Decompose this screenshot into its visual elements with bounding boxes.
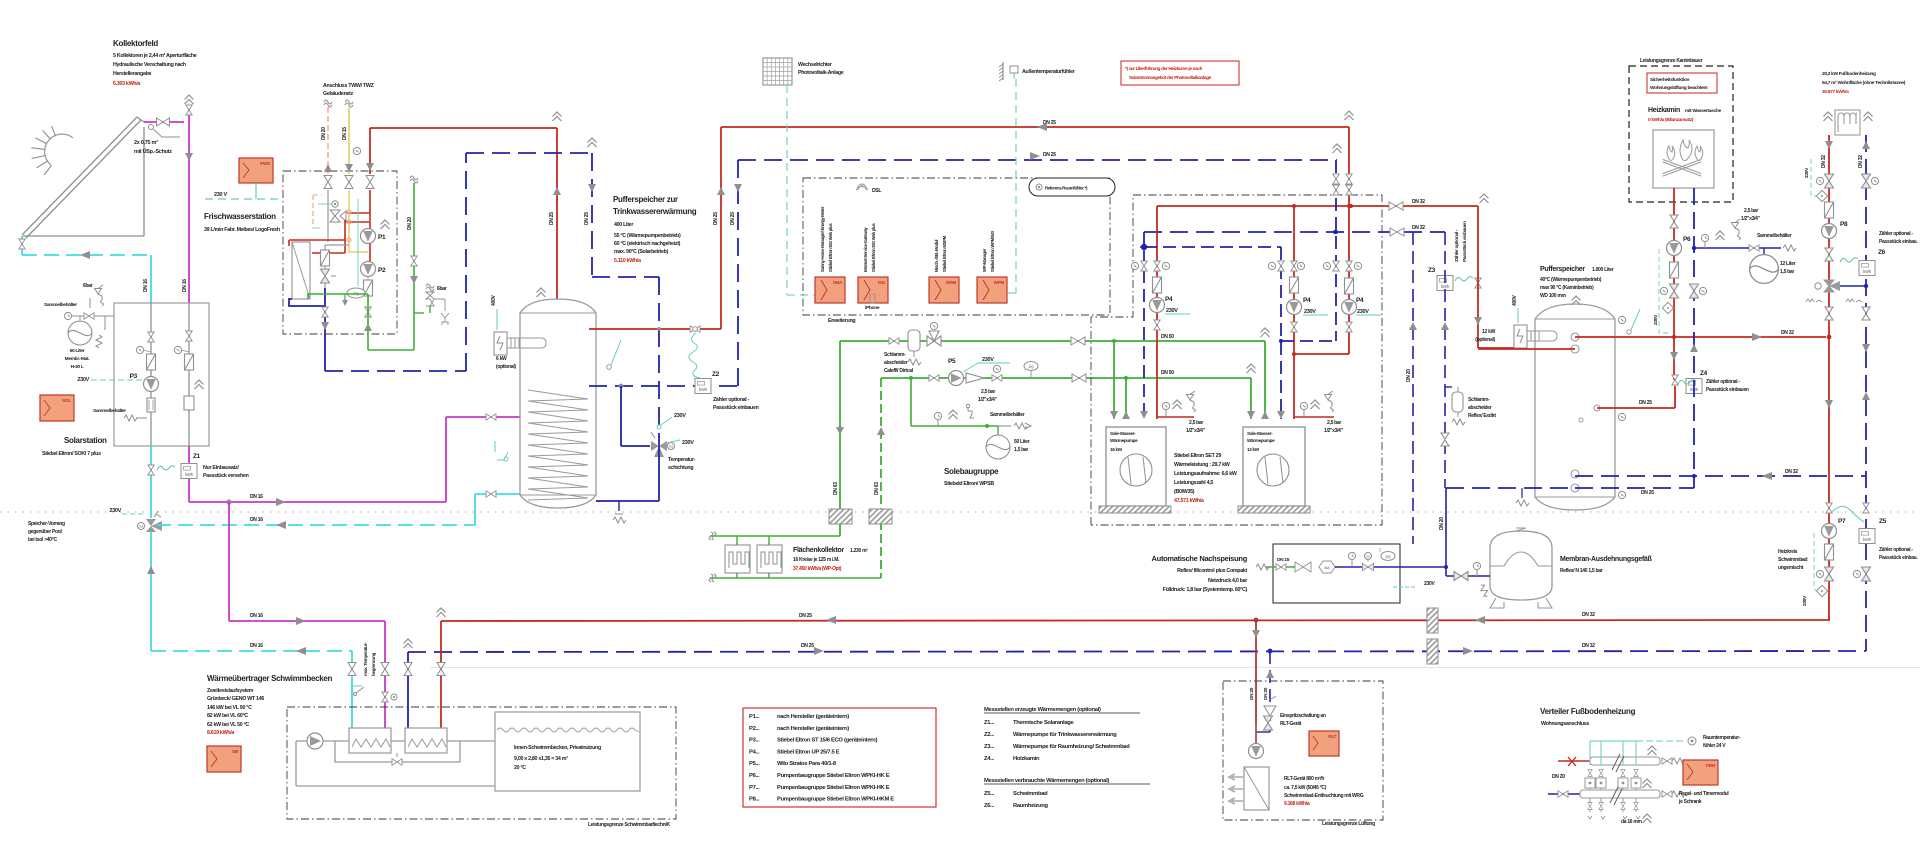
svg-text:Zähler optional -: Zähler optional - bbox=[1879, 231, 1913, 237]
svg-text:Membr.-Mat.: Membr.-Mat. bbox=[65, 356, 90, 362]
svg-text:P4: P4 bbox=[1356, 297, 1364, 304]
svg-text:SMA: SMA bbox=[833, 280, 843, 285]
svg-text:Holzkamin: Holzkamin bbox=[1013, 756, 1040, 762]
filter magenta column bbox=[185, 354, 194, 370]
pool circuit gray pipes bbox=[296, 740, 307, 742]
valve navy mid bbox=[1862, 307, 1870, 320]
wire green riser DN63 supply bbox=[839, 341, 841, 536]
svg-text:DN 25: DN 25 bbox=[1043, 152, 1056, 158]
svg-text:2,5 bar: 2,5 bar bbox=[1744, 208, 1758, 214]
wire red FWS internal bbox=[369, 190, 371, 212]
svg-text:20,3 kW Fußbodenheizung: 20,3 kW Fußbodenheizung bbox=[1822, 71, 1876, 77]
svg-text:Grünbeck/ GENO WT 146: Grünbeck/ GENO WT 146 bbox=[207, 696, 264, 702]
svg-text:60 °C (elektrisch nachgeheizt): 60 °C (elektrisch nachgeheizt) bbox=[614, 241, 681, 247]
junction red DN32 at P6 bbox=[1672, 335, 1676, 339]
svg-text:P2: P2 bbox=[378, 267, 386, 274]
svg-text:400 Liter: 400 Liter bbox=[614, 222, 633, 228]
HP2 navy riser bbox=[1140, 243, 1148, 251]
wire navy header DN32 bbox=[1144, 231, 1445, 233]
valve Z3 on red bbox=[1475, 278, 1481, 288]
heat exchanger FWS bbox=[292, 242, 310, 299]
pipe DN15 (yellow) bbox=[348, 107, 350, 174]
svg-text:Pufferspeicher: Pufferspeicher bbox=[1540, 266, 1585, 273]
wire red header DN32 bbox=[1157, 205, 1478, 207]
svg-text:20 °C: 20 °C bbox=[514, 765, 526, 771]
wire red top to heat pump zone (DN 25) bbox=[721, 126, 1349, 128]
svg-text:max 90 °C (Kaminbetrieb): max 90 °C (Kaminbetrieb) bbox=[1540, 285, 1594, 291]
svg-text:Wärmepumpe: Wärmepumpe bbox=[1110, 438, 1138, 443]
svg-text:Stiebel Eltron ISG Web plus: Stiebel Eltron ISG Web plus bbox=[828, 223, 833, 272]
injection valve RLT bbox=[1264, 706, 1276, 716]
svg-text:Stiebel Eltron MSPM: Stiebel Eltron MSPM bbox=[942, 235, 947, 272]
wire collector upper header bbox=[710, 535, 840, 537]
wire cyan drop to pool HX1 bbox=[351, 651, 353, 728]
wire navy tank return riser bbox=[589, 385, 738, 387]
svg-text:Gebäudenetz: Gebäudenetz bbox=[323, 91, 354, 97]
svg-text:DN 25: DN 25 bbox=[799, 613, 812, 619]
diamond sensor P6 bbox=[1662, 302, 1673, 313]
svg-text:2,5 bar: 2,5 bar bbox=[1327, 420, 1341, 426]
wire red tank to DN32 right bbox=[1575, 336, 1826, 338]
svg-text:DSL: DSL bbox=[872, 188, 881, 194]
chevron vent bbox=[195, 380, 204, 389]
wire navy DN32 tank to right bbox=[1575, 475, 1866, 477]
wire magenta drop to pool HX1 bbox=[384, 621, 386, 728]
svg-text:DN 32: DN 32 bbox=[1412, 199, 1425, 205]
svg-text:2,5 bar: 2,5 bar bbox=[981, 389, 995, 395]
svg-text:je Schrank: je Schrank bbox=[1678, 799, 1702, 805]
wire navy top to heat pump zone (DN 25) bbox=[738, 159, 1337, 161]
svg-text:Netzdruck 4,0 bar: Netzdruck 4,0 bar bbox=[1208, 578, 1247, 584]
wire cyan pool horizontal DN 16 bbox=[151, 650, 352, 652]
pump P1 bbox=[369, 212, 371, 262]
wire navy under FWS to riser bbox=[325, 370, 466, 372]
svg-text:da 16 mm: da 16 mm bbox=[1621, 819, 1643, 825]
svg-text:6.303 kWh/a: 6.303 kWh/a bbox=[113, 81, 140, 87]
svg-text:Sammelbehälter: Sammelbehälter bbox=[44, 302, 77, 308]
wire red FBH riser bbox=[1828, 135, 1830, 620]
pipe yellow internal bbox=[348, 190, 350, 252]
svg-text:DN 32: DN 32 bbox=[1582, 612, 1595, 618]
svg-text:400V: 400V bbox=[491, 295, 497, 306]
svg-text:Passstück einbauen: Passstück einbauen bbox=[713, 405, 759, 411]
warn box Sicherheitsfunktion bbox=[1647, 73, 1717, 93]
manifold FBH return bbox=[1548, 793, 1580, 795]
svg-text:Regel- und Timermodul: Regel- und Timermodul bbox=[1679, 791, 1729, 797]
svg-text:Passstück versehen: Passstück versehen bbox=[203, 473, 249, 479]
sensor pool teal bbox=[352, 682, 362, 686]
svg-text:230V: 230V bbox=[674, 413, 686, 419]
svg-text:146 kW bei VL 90 °C: 146 kW bei VL 90 °C bbox=[207, 705, 252, 711]
svg-text:230V: 230V bbox=[1804, 167, 1810, 178]
sensor TI P3 line bbox=[136, 346, 143, 353]
valve solar supply bbox=[157, 118, 170, 126]
valve pair brine enclosure entry bbox=[1071, 337, 1085, 345]
mixing valve P8 with motor bbox=[1824, 280, 1834, 292]
svg-text:Wärmeübertrager Schwimmbecken: Wärmeübertrager Schwimmbecken bbox=[207, 674, 333, 683]
valve on cyan + Z1 sensor curl bbox=[150, 446, 152, 518]
enclosure Schwimmbadtechnik bbox=[287, 707, 676, 819]
svg-text:16 kW: 16 kW bbox=[1110, 447, 1123, 452]
sensor TI on DN15 bbox=[353, 147, 360, 154]
svg-text:WP-Manager: WP-Manager bbox=[982, 248, 987, 272]
valve red header bbox=[1389, 202, 1403, 210]
svg-text:Reflex/ N 140 1,5 bar: Reflex/ N 140 1,5 bar bbox=[1560, 568, 1603, 574]
svg-text:47.571 kWh/a: 47.571 kWh/a bbox=[1174, 498, 1204, 504]
wire solar supply (magenta) collector to riser bbox=[144, 121, 184, 123]
svg-text:Einspritzschaltung an: Einspritzschaltung an bbox=[1280, 713, 1326, 719]
wire red DN25 riser from FWS bbox=[369, 128, 371, 174]
wire red DN32 corner down to tank bbox=[1477, 206, 1479, 348]
wire red into 12kW heater bbox=[1478, 347, 1514, 349]
svg-text:1,5 bar: 1,5 bar bbox=[1780, 269, 1794, 275]
svg-text:*) zur Überführung der Heizkur: *) zur Überführung der Heizkurve je nach bbox=[1125, 65, 1203, 71]
svg-text:DN 20: DN 20 bbox=[407, 217, 413, 230]
sensor PS oval bbox=[347, 288, 365, 298]
svg-text:P6: P6 bbox=[1683, 236, 1691, 243]
svg-text:FWS: FWS bbox=[260, 161, 271, 167]
svg-text:Reflex/ fillcontrol plus Compa: Reflex/ fillcontrol plus Compakt bbox=[1177, 568, 1247, 574]
svg-text:DN 16: DN 16 bbox=[250, 613, 263, 619]
svg-text:Speicher-Vorrang: Speicher-Vorrang bbox=[28, 521, 65, 527]
svg-text:P4: P4 bbox=[1165, 296, 1173, 303]
svg-text:BA: BA bbox=[1324, 565, 1330, 570]
svg-text:Temperatur-: Temperatur- bbox=[668, 457, 696, 463]
chevron above tank bbox=[537, 288, 546, 297]
tank coil (solar) bbox=[528, 390, 588, 500]
pump P8 bbox=[1822, 224, 1837, 239]
svg-text:Anschluss TWW/ TWZ: Anschluss TWW/ TWZ bbox=[323, 83, 375, 89]
svg-text:54,7 m² Wohnfläche (ohne Techn: 54,7 m² Wohnfläche (ohne Technikräume) bbox=[1822, 80, 1906, 86]
third P4 riser red from DN25 bbox=[1348, 127, 1350, 354]
svg-text:Z6...: Z6... bbox=[984, 803, 995, 809]
valve green return bbox=[929, 375, 939, 381]
green sanitary return inside FWS bbox=[308, 294, 368, 299]
diamond P8 bbox=[1816, 190, 1827, 201]
svg-text:Hydraulische Verschaltung nach: Hydraulische Verschaltung nach bbox=[113, 62, 186, 68]
sun icon bbox=[31, 126, 73, 175]
svg-text:RLT-Gerät 800 m³/h: RLT-Gerät 800 m³/h bbox=[1284, 776, 1324, 782]
svg-text:fühler 24 V: fühler 24 V bbox=[1703, 743, 1726, 749]
svg-text:Nur Einbausatz/: Nur Einbausatz/ bbox=[203, 465, 239, 471]
valve magenta column bbox=[186, 331, 192, 341]
teal sensor wires FWS bbox=[357, 199, 359, 286]
valve navy header bbox=[1390, 228, 1404, 236]
icon DSL phone bbox=[856, 184, 868, 190]
pump RLT bbox=[1249, 744, 1264, 759]
svg-text:DN 25: DN 25 bbox=[801, 643, 814, 649]
svg-text:Wechselrichter: Wechselrichter bbox=[798, 62, 832, 68]
pill Referenz-Raumfuehler bbox=[1029, 178, 1115, 196]
svg-text:230V: 230V bbox=[109, 508, 121, 514]
svg-text:Raumtemperatur-: Raumtemperatur- bbox=[1703, 735, 1741, 741]
pipe solar station right column (magenta/gray) bbox=[188, 303, 190, 446]
filter P7 bbox=[1825, 544, 1834, 560]
svg-text:P5: P5 bbox=[948, 358, 956, 365]
enclosure Frischwasserstation (dash-dot) bbox=[283, 171, 397, 334]
pump P2 bbox=[361, 262, 376, 277]
svg-text:Z4: Z4 bbox=[1700, 370, 1708, 377]
svg-text:Solarstromangebot der Photovol: Solarstromangebot der Photovoltaikanlage bbox=[1129, 75, 1212, 80]
valve P7 with TI bbox=[1825, 567, 1834, 581]
svg-text:ISG: ISG bbox=[878, 280, 886, 285]
svg-text:(B0/W35): (B0/W35) bbox=[1174, 489, 1195, 495]
svg-text:Stiebel Eltron SET 29: Stiebel Eltron SET 29 bbox=[1174, 453, 1221, 459]
heat pump 2 Sole-Wasser 13kW bbox=[1243, 427, 1305, 506]
controller SMA bbox=[815, 277, 845, 303]
svg-text:Passstück einbauen: Passstück einbauen bbox=[1706, 387, 1749, 393]
svg-text:Schwimmbad: Schwimmbad bbox=[1778, 557, 1807, 563]
svg-text:Pumpenbaugruppe Stiebel Eltron: Pumpenbaugruppe Stiebel Eltron WPKI-HK E bbox=[777, 773, 890, 779]
svg-text:abscheider: abscheider bbox=[884, 360, 908, 366]
svg-text:230V: 230V bbox=[682, 440, 694, 446]
svg-text:Sammelbehälter: Sammelbehälter bbox=[93, 408, 126, 414]
svg-text:12 Liter: 12 Liter bbox=[1780, 261, 1796, 267]
valve navy with TI bbox=[1690, 284, 1699, 298]
wire navy Nachspeisung to DN20 bbox=[1400, 566, 1446, 568]
filter P8 bbox=[1825, 202, 1834, 218]
enclosure Solarstation bbox=[114, 303, 209, 446]
drain line 6bar bbox=[434, 298, 445, 300]
valve Z5 on navy bbox=[1863, 503, 1869, 513]
svg-text:DN 25: DN 25 bbox=[549, 212, 555, 225]
enclosure Erweiterung (dash-dot) bbox=[803, 178, 1110, 315]
svg-text:Sole-Wasser-: Sole-Wasser- bbox=[1110, 431, 1136, 436]
heater 12 kW bbox=[1514, 325, 1527, 348]
wire green supply header DN50 bbox=[840, 340, 1265, 342]
svg-text:Z1: Z1 bbox=[193, 453, 201, 460]
wire red tank supply from HP (left) bbox=[1478, 348, 1575, 350]
svg-text:mit ÜSp.-Schutz: mit ÜSp.-Schutz bbox=[134, 148, 172, 155]
svg-text:Z2: Z2 bbox=[712, 371, 720, 378]
svg-text:WD 100 mm: WD 100 mm bbox=[1540, 293, 1566, 299]
filter P3 line bbox=[147, 354, 156, 370]
chevron fill bbox=[949, 410, 958, 419]
svg-text:iPhone: iPhone bbox=[865, 305, 880, 311]
svg-text:Erweiterung: Erweiterung bbox=[828, 318, 855, 324]
svg-text:MSM: MSM bbox=[946, 280, 956, 285]
svg-text:13 kW: 13 kW bbox=[1247, 447, 1260, 452]
wire cyan riser down to solar station bbox=[150, 255, 152, 303]
svg-text:2,5 bar: 2,5 bar bbox=[1189, 420, 1203, 426]
wall hatch DN63 supply bbox=[829, 509, 852, 524]
svg-text:Automatische Nachspeisung: Automatische Nachspeisung bbox=[1152, 554, 1248, 563]
wall hatch navy bottom bbox=[1427, 639, 1438, 664]
svg-text:Stiebel Eltron UP 25/7.5 E: Stiebel Eltron UP 25/7.5 E bbox=[777, 749, 840, 755]
expansion vessel 50 Liter bbox=[68, 321, 92, 345]
svg-text:DN 16: DN 16 bbox=[250, 643, 263, 649]
valve row at FWS top bbox=[324, 176, 332, 189]
filter Schlammabscheider Reflex bbox=[1445, 386, 1452, 388]
HP1 navy riser bbox=[1143, 232, 1145, 419]
wire green return header DN50 bbox=[881, 377, 1251, 379]
wire cyan horizontal to solar station bbox=[22, 254, 151, 256]
wire red from Heizkamin bbox=[1673, 188, 1675, 380]
svg-text:Solarstation: Solarstation bbox=[64, 436, 107, 445]
check valve P8 bbox=[1825, 248, 1833, 261]
svg-text:Schlamm-: Schlamm- bbox=[1468, 397, 1490, 403]
wire red Z4 to tank mid port DN25 bbox=[1674, 386, 1676, 408]
pipe solar station left column (gray) bbox=[150, 303, 152, 446]
svg-text:Z3...: Z3... bbox=[984, 744, 995, 750]
RLT device bbox=[1244, 767, 1269, 810]
pool bypass with valve bbox=[335, 741, 460, 762]
expansion vessel MAG bbox=[1490, 531, 1552, 600]
svg-text:DN 32: DN 32 bbox=[1412, 225, 1425, 231]
air separator box bbox=[184, 396, 194, 410]
svg-text:Misch.-/SB.-Modul: Misch.-/SB.-Modul bbox=[934, 240, 939, 272]
wire green fill branch bbox=[910, 378, 912, 426]
svg-text:Schlamm-: Schlamm- bbox=[884, 352, 906, 358]
slash marks manifold bbox=[1610, 754, 1624, 805]
svg-text:Leistungsgrenze Lüftung: Leistungsgrenze Lüftung bbox=[1322, 821, 1375, 827]
svg-text:230V: 230V bbox=[1304, 309, 1316, 315]
svg-text:DN 32: DN 32 bbox=[1582, 643, 1595, 649]
svg-text:schichtung: schichtung bbox=[668, 465, 693, 471]
svg-text:Passstück einbau.: Passstück einbau. bbox=[1879, 239, 1918, 245]
heat pump 1 Sole-Wasser 16kW bbox=[1106, 427, 1166, 506]
svg-text:Zweikreislaufsystem: Zweikreislaufsystem bbox=[207, 688, 254, 694]
note box solar heating curve bbox=[1121, 61, 1239, 85]
svg-text:Zähler optional -: Zähler optional - bbox=[713, 397, 750, 403]
svg-text:P4: P4 bbox=[1303, 297, 1311, 304]
svg-text:Sammelbehälter: Sammelbehälter bbox=[990, 412, 1025, 418]
wire navy to tank side riser bbox=[592, 276, 659, 278]
svg-text:5.110 kWh/a: 5.110 kWh/a bbox=[614, 258, 641, 264]
svg-text:Thermische Solaranlage: Thermische Solaranlage bbox=[1013, 720, 1074, 726]
sensor line tank coil cyan bbox=[497, 452, 508, 460]
gauge PI fill bbox=[937, 420, 939, 426]
HP2 safety group bbox=[1294, 416, 1334, 418]
valve under P8 bbox=[1825, 307, 1833, 320]
junction red DN32/FBH bbox=[1827, 335, 1832, 340]
meter Z2 bbox=[695, 379, 711, 394]
svg-text:0 kWh/a (Bilanzansatz): 0 kWh/a (Bilanzansatz) bbox=[1648, 117, 1694, 123]
wire 230 V teal dashed bbox=[205, 198, 283, 200]
diamond P7 bbox=[1816, 585, 1827, 596]
collector sensor bbox=[149, 125, 154, 130]
junction dots tank lines bbox=[657, 327, 661, 331]
svg-text:Heizkamin: Heizkamin bbox=[1648, 107, 1680, 114]
pump P6 bbox=[1667, 241, 1682, 256]
svg-text:40°C (Wärmepumpenbetrieb): 40°C (Wärmepumpenbetrieb) bbox=[1540, 277, 1602, 283]
wire navy 3way down to tank bottom bbox=[658, 446, 660, 501]
sensor curl P7 bbox=[1832, 506, 1864, 522]
cut symbols building net bbox=[324, 100, 332, 107]
svg-text:DN 15: DN 15 bbox=[342, 127, 348, 140]
legend box pumps bbox=[743, 708, 936, 807]
svg-text:9,00 x 2,80 x1,35 = 34 m³: 9,00 x 2,80 x1,35 = 34 m³ bbox=[514, 756, 568, 762]
controller FBH bbox=[1683, 760, 1718, 785]
svg-text:Leistungsgrenze Schwimmbadtech: Leistungsgrenze SchwimmbadtechniK bbox=[588, 822, 670, 828]
wire PV teal to SMA bbox=[786, 85, 788, 295]
svg-text:nach Hersteller (geräteintern): nach Hersteller (geräteintern) bbox=[777, 714, 849, 720]
svg-text:DN 25: DN 25 bbox=[584, 212, 590, 225]
svg-text:Referenz-Raumfühler *): Referenz-Raumfühler *) bbox=[1045, 186, 1088, 191]
svg-text:abscheider: abscheider bbox=[1468, 405, 1492, 411]
faint page boundary line bbox=[430, 667, 1920, 669]
chevron FBH mid bbox=[1643, 814, 1652, 823]
svg-text:DN 25: DN 25 bbox=[1639, 400, 1652, 406]
sensor curl Z2 bbox=[689, 333, 700, 378]
pump P3 bbox=[144, 377, 159, 392]
svg-text:Pumpenbaugruppe Stiebel Eltron: Pumpenbaugruppe Stiebel Eltron WPKI-HK E bbox=[777, 785, 890, 791]
drain with zigzag P3 line bbox=[136, 417, 147, 419]
svg-text:400V: 400V bbox=[1512, 295, 1518, 306]
svg-text:WPM: WPM bbox=[994, 280, 1005, 285]
wire collector lower header bbox=[710, 577, 881, 579]
svg-text:DN 20: DN 20 bbox=[1249, 687, 1255, 700]
svg-text:230 V: 230 V bbox=[214, 192, 228, 198]
HP2 red riser P4 (middle) bbox=[1293, 206, 1295, 419]
svg-text:1/2"x3/4": 1/2"x3/4" bbox=[1186, 428, 1206, 434]
wire cyan branch to tank coil (DN 16) bbox=[156, 524, 475, 526]
tank ports 1000L bbox=[1571, 333, 1579, 341]
page section divider (dotted) bbox=[0, 511, 1920, 513]
safety valve group top of solar riser bbox=[188, 107, 190, 122]
valve P3 line bbox=[148, 332, 154, 342]
chevron near P1 bbox=[381, 220, 390, 229]
safety valve 6bar FWS bbox=[414, 312, 424, 314]
enclosure Nachspeisung bbox=[1273, 544, 1400, 603]
pump P7 bbox=[1826, 503, 1832, 513]
svg-text:Z2...: Z2... bbox=[984, 732, 995, 738]
svg-text:P5...: P5... bbox=[749, 761, 760, 767]
wire navy from Heizkamin bbox=[1693, 188, 1695, 476]
3-way valve Speicher-Vorrang bbox=[146, 519, 156, 526]
valve check P6 bbox=[1670, 215, 1678, 228]
wire navy tank bottom header bbox=[1446, 487, 1575, 489]
tank bottom drain bbox=[618, 501, 620, 511]
svg-text:Wärmeleistung : 29,7 kW: Wärmeleistung : 29,7 kW bbox=[1174, 462, 1230, 468]
svg-text:Sammelbehälter: Sammelbehälter bbox=[1757, 233, 1792, 239]
radiator coil FBH bbox=[1835, 110, 1860, 135]
flow meter P3 line bbox=[147, 398, 155, 412]
svg-text:Wärmepumpe für Trinkwassererwä: Wärmepumpe für Trinkwassererwärmung bbox=[1013, 732, 1117, 738]
svg-text:DN 16: DN 16 bbox=[143, 279, 149, 292]
svg-text:DN 32: DN 32 bbox=[1821, 155, 1827, 168]
pool heat exchanger 2 bbox=[405, 728, 447, 753]
svg-text:230V: 230V bbox=[982, 357, 994, 363]
svg-text:P1: P1 bbox=[378, 234, 386, 241]
gauge + line solar MAG bbox=[64, 312, 71, 319]
svg-text:(optional): (optional) bbox=[496, 364, 516, 370]
svg-text:Leistungsaufnahme: 6,6 kW: Leistungsaufnahme: 6,6 kW bbox=[1174, 471, 1237, 477]
svg-text:Reflex/ Exdirt: Reflex/ Exdirt bbox=[1468, 413, 1496, 419]
wire FWS to 230V line bbox=[255, 183, 257, 199]
wire red drop to pool HX2 bbox=[440, 621, 442, 728]
svg-text:Trinkwassererwärmung: Trinkwassererwärmung bbox=[613, 207, 697, 216]
wire cyan down to pool circuit bbox=[150, 532, 152, 651]
pump P5 bbox=[949, 371, 964, 386]
heating circuit valves and meters bbox=[1589, 741, 1591, 765]
svg-text:DN 63: DN 63 bbox=[833, 482, 839, 495]
svg-text:Zähler optional -: Zähler optional - bbox=[1454, 229, 1460, 262]
svg-text:Caleffi/ Dirtcal: Caleffi/ Dirtcal bbox=[884, 368, 914, 374]
sensor Aussentemperaturfuehler bbox=[1002, 62, 1004, 80]
svg-text:230V: 230V bbox=[1357, 309, 1369, 315]
svg-text:1.230 m²: 1.230 m² bbox=[850, 548, 868, 554]
tank bottom drain 1000L bbox=[1521, 488, 1523, 498]
motor valve magenta max temp bbox=[382, 692, 388, 702]
gray cold branch to HX bbox=[325, 244, 349, 246]
wire navy MAG connection bbox=[1445, 488, 1447, 576]
valve magenta at tank coil bbox=[486, 414, 496, 420]
svg-text:230V: 230V bbox=[1424, 581, 1435, 587]
svg-text:Zähler optional -: Zähler optional - bbox=[1879, 547, 1913, 553]
svg-text:P8...: P8... bbox=[749, 797, 760, 803]
svg-text:bei tsol >40°C: bei tsol >40°C bbox=[28, 537, 57, 543]
